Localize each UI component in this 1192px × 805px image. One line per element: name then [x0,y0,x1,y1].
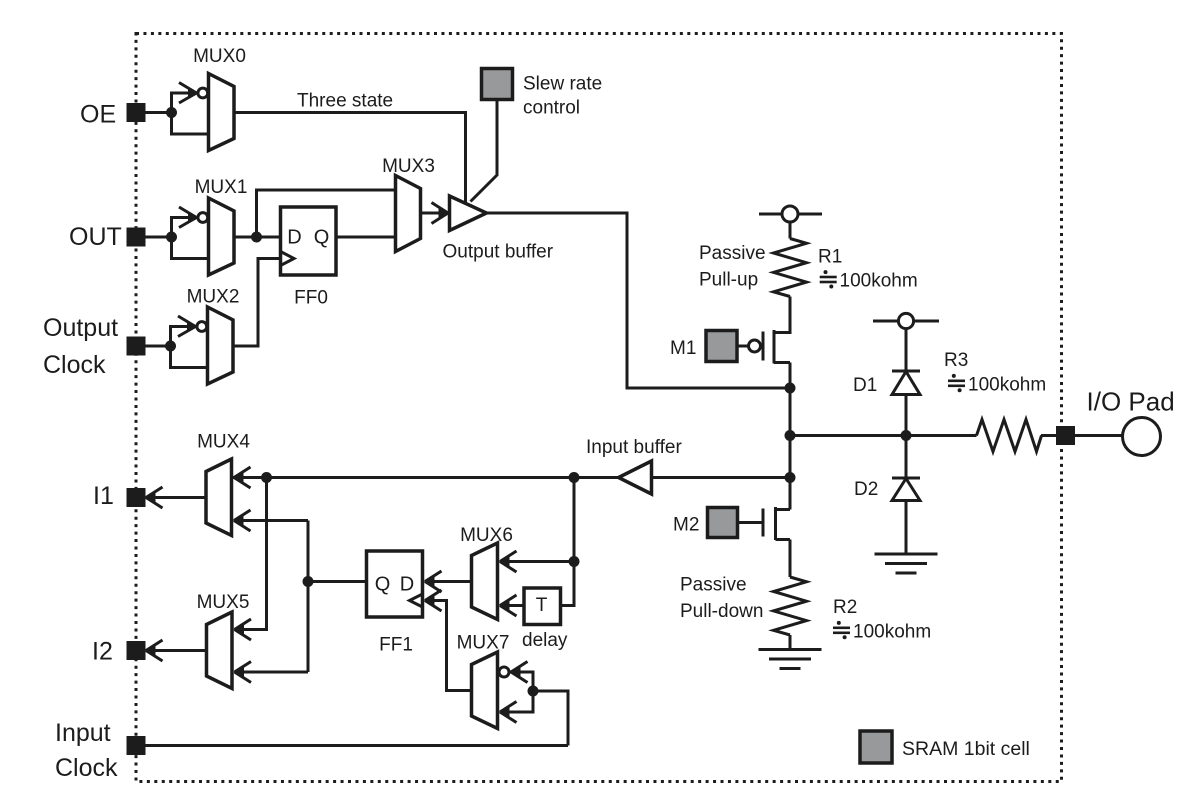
wire FF0 Q to MUX3 bottom input [336,236,396,239]
MUX1 input select bracket wire [172,218,209,259]
FF0 clock notch [281,252,295,266]
svg-text:M2: M2 [673,515,699,536]
I1 output arrow [145,487,163,508]
node diode clamp junction [901,430,912,441]
svg-text:MUX6: MUX6 [460,525,513,546]
SRAM cell for M2 [708,508,738,538]
mux MUX4 body [206,459,232,536]
op-amp U2 input buffer triangle [619,461,652,494]
FF1 clock notch [410,594,423,607]
power terminal for diode clamp [873,313,939,328]
wire output buffer output to pull-up node [487,213,791,388]
MUX1 inverter bubble [198,213,208,223]
svg-text:Pull-up: Pull-up [699,270,758,291]
terminal OUT [128,229,144,245]
ground under D2 [875,554,938,573]
resistor R1 [774,239,807,297]
svg-text:M1: M1 [670,338,696,359]
MUX7 input select bracket wire [505,672,533,712]
diode D2 [892,478,920,501]
terminal IO pad boundary square [1058,428,1074,444]
svg-text:D2: D2 [854,479,878,500]
wire pad net vertical [789,388,792,510]
svg-text:100kohm: 100kohm [853,622,931,643]
label R2 value 100kohm [833,621,931,643]
ground under R2 [759,650,822,669]
node input bus / delay branch [569,472,580,483]
svg-text:Input: Input [55,719,111,747]
node pad net / IO line junction [785,430,796,441]
terminal Output Clock [128,338,144,354]
svg-text:SRAM 1bit cell: SRAM 1bit cell [902,738,1030,760]
label Passive Pull-up [699,243,766,291]
node pad net / input buffer junction [785,472,796,483]
wire feedback to MUX5 bottom input [239,671,308,674]
node input bus / MUX4 branch [261,472,272,483]
svg-text:D1: D1 [853,375,877,396]
wire R3 to boundary terminal [1041,434,1058,437]
wire M1 source to pad net [789,363,792,389]
MUX4 top input arrow [233,467,251,488]
MUX5 bottom input arrow [234,662,252,683]
mux MUX2 body [208,307,234,384]
wire MUX4 output to I1 [146,496,206,499]
flip-flop FF1 [367,551,423,617]
mux MUX3 body [396,176,421,252]
resistor R3 [906,420,1042,452]
FF1 D input arrow [424,571,442,592]
mux MUX6 body [472,543,498,620]
svg-text:Passive: Passive [680,575,747,596]
terminal OE [128,105,144,121]
wire OE to junction [144,111,168,114]
svg-text:MUX2: MUX2 [187,287,240,308]
MUX2 inverter bubble [197,322,207,332]
transistor M1 (PMOS) [738,330,791,364]
svg-text:T: T [536,595,548,616]
wire Output Clock to junction [144,345,167,348]
flip-flop FF0 [281,207,337,275]
svg-text:MUX1: MUX1 [195,177,248,198]
wire delay branch vertical [561,478,575,606]
wire pad net to input buffer [652,476,791,479]
svg-text:Pull-down: Pull-down [680,601,763,622]
svg-text:MUX7: MUX7 [457,633,510,654]
wire MUX6 output to FF1 D [430,580,472,583]
FF1 clock input arrow [424,590,442,611]
svg-text:Passive: Passive [699,243,766,264]
svg-text:FF0: FF0 [294,288,328,309]
wire MUX7 output to FF1 clock [430,601,472,691]
label Input Clock [55,719,118,782]
MUX2 input select bracket wire [171,327,208,368]
SRAM cell: slew rate control square [482,69,513,100]
node Output Clock junction [165,341,176,352]
label Passive Pull-down [680,575,763,623]
MUX6 bottom input arrow [499,595,517,616]
node buffer/pull-up junction [785,383,796,394]
wire MUX3 output stem [421,212,441,215]
svg-text:100kohm: 100kohm [840,271,918,292]
wire boundary to IO pad [1074,434,1123,437]
svg-text:Clock: Clock [55,754,118,782]
MUX7 inverter bubble [499,667,509,677]
label Output Clock [43,314,118,379]
wire input clock to MUX7 [533,691,568,746]
svg-text:delay: delay [522,630,568,651]
IO pad circle [1123,418,1161,456]
terminal I2 [128,643,144,659]
op-amp U1 output buffer triangle [450,196,487,231]
terminal I1 [128,490,144,506]
transistor M2 (NMOS) [738,507,791,540]
wire MUX5 output to I2 [146,649,207,652]
SRAM legend square [860,731,892,763]
wire MUX1 output to FF0 D [234,236,281,239]
terminal Input Clock [128,738,144,754]
svg-text:Output buffer: Output buffer [443,242,554,263]
wire MUX2 output to FF0 clock [233,259,281,347]
wire FF1 Q feedback to MUX4/MUX5 bottom inputs [308,521,367,673]
label Slew rate control [523,74,602,119]
svg-text:R3: R3 [944,350,968,371]
MUX2 inverter chevron+arrow [178,316,197,337]
svg-text:Slew rate: Slew rate [523,74,602,95]
wire T output to MUX6 bottom input [505,604,524,607]
node delay branch / MUX6 top input [569,556,580,567]
wire Input Clock bus [144,744,568,747]
wire D2 to ground [905,501,908,555]
wire input buffer output bus [233,476,619,479]
wire R1 to M1 drain [774,297,790,333]
MUX0 inverter bubble [198,88,208,98]
node OUT junction [166,232,177,243]
svg-text:MUX4: MUX4 [197,432,250,453]
svg-text:100kohm: 100kohm [968,375,1046,396]
svg-text:control: control [523,98,580,119]
svg-text:R2: R2 [833,597,857,618]
dotted boundary frame [136,34,1062,782]
label R1 value 100kohm [820,270,918,291]
resistor R2 [774,577,807,635]
node OE junction [166,107,177,118]
MUX0 input select bracket wire [172,93,209,134]
svg-text:Clock: Clock [43,351,106,379]
node MUX1 output junction [251,232,262,243]
wire branch to MUX6 top input [505,560,574,563]
diode D1 [892,371,920,395]
I2 output arrow [145,640,163,661]
output buffer input arrow [432,203,450,224]
wire MUX1 out up to MUX3 top input [257,190,396,237]
mux MUX5 body [207,612,233,689]
node FF1 Q feedback junction [303,576,314,587]
wire input bus down to MUX5 top input [239,478,267,630]
svg-text:I2: I2 [92,638,113,666]
wire Three state net: MUX0 out to output buffer enable [234,113,466,204]
power terminal for pull-up [759,206,822,222]
svg-text:I1: I1 [93,482,114,510]
svg-text:I/O Pad: I/O Pad [1087,387,1175,417]
wire slew rate control to output buffer [471,100,498,202]
wire D1 to D2 [905,395,908,479]
svg-text:D: D [400,574,414,596]
SRAM cell for M1 [706,331,737,362]
svg-text:Input buffer: Input buffer [586,437,682,458]
svg-text:Q: Q [375,574,391,596]
svg-text:MUX5: MUX5 [197,592,250,613]
svg-text:FF1: FF1 [379,635,413,656]
node MUX7 input junction [528,686,539,697]
MUX7 top input arrow [510,662,528,683]
MUX6 top input arrow [499,551,517,572]
svg-text:MUX0: MUX0 [193,46,246,67]
wire feedback to MUX4 bottom input [239,519,308,522]
svg-text:Output: Output [43,314,118,342]
svg-text:OE: OE [80,101,116,129]
svg-text:Three state: Three state [297,91,393,112]
svg-text:Q: Q [314,227,330,249]
wire power to D1 [905,329,908,372]
wire IO pad line [790,434,977,437]
mux MUX7 body [472,652,498,729]
delay element T box [524,588,561,625]
MUX7 bottom input arrow [499,702,517,723]
svg-text:MUX3: MUX3 [382,156,435,177]
MUX1 inverter chevron+arrow [179,207,198,228]
wire R2 to ground [789,635,792,650]
svg-text:R1: R1 [818,247,842,268]
MUX5 top input arrow [234,619,252,640]
wire power to R1 [789,222,792,239]
svg-text:D: D [287,227,301,249]
mux MUX0 body [209,74,235,151]
MUX4 bottom input arrow [233,510,251,531]
MUX0 inverter chevron+arrow [179,83,198,104]
wire M2 source to R2 [789,540,792,578]
wire OUT to junction [144,236,168,239]
mux MUX1 body [209,198,235,275]
label R3 value 100kohm [948,374,1046,396]
svg-text:OUT: OUT [69,223,122,251]
